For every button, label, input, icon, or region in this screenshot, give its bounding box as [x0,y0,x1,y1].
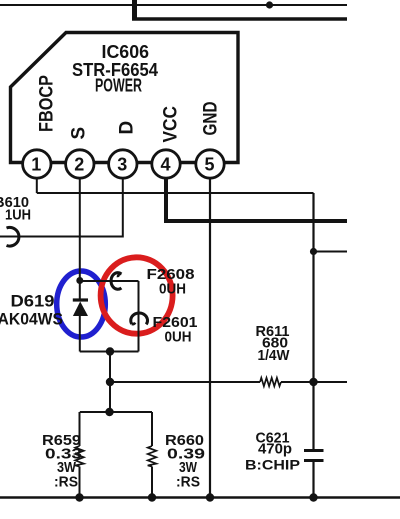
svg-text:S: S [69,127,90,140]
svg-text:D619: D619 [11,293,55,311]
svg-text:470p: 470p [258,441,292,458]
svg-text:FBOCP: FBOCP [37,75,58,132]
svg-text:3: 3 [117,155,127,175]
svg-text:D: D [117,121,138,135]
svg-text:1: 1 [31,155,41,175]
svg-text::RS: :RS [176,474,200,491]
svg-text:AK04WS: AK04WS [0,311,63,329]
svg-text:GND: GND [201,102,222,136]
svg-text:B:CHIP: B:CHIP [245,457,300,473]
svg-text:IC606: IC606 [102,42,150,62]
svg-text:2: 2 [74,155,84,175]
svg-text:POWER: POWER [95,76,142,96]
svg-text:5: 5 [204,155,214,175]
svg-text:0UH: 0UH [159,281,186,298]
svg-text::RS: :RS [54,474,78,491]
svg-text:1/4W: 1/4W [258,347,291,364]
svg-text:0UH: 0UH [165,329,192,346]
svg-text:VCC: VCC [161,106,182,143]
svg-text:4: 4 [160,155,170,175]
svg-text:1UH: 1UH [5,207,31,224]
